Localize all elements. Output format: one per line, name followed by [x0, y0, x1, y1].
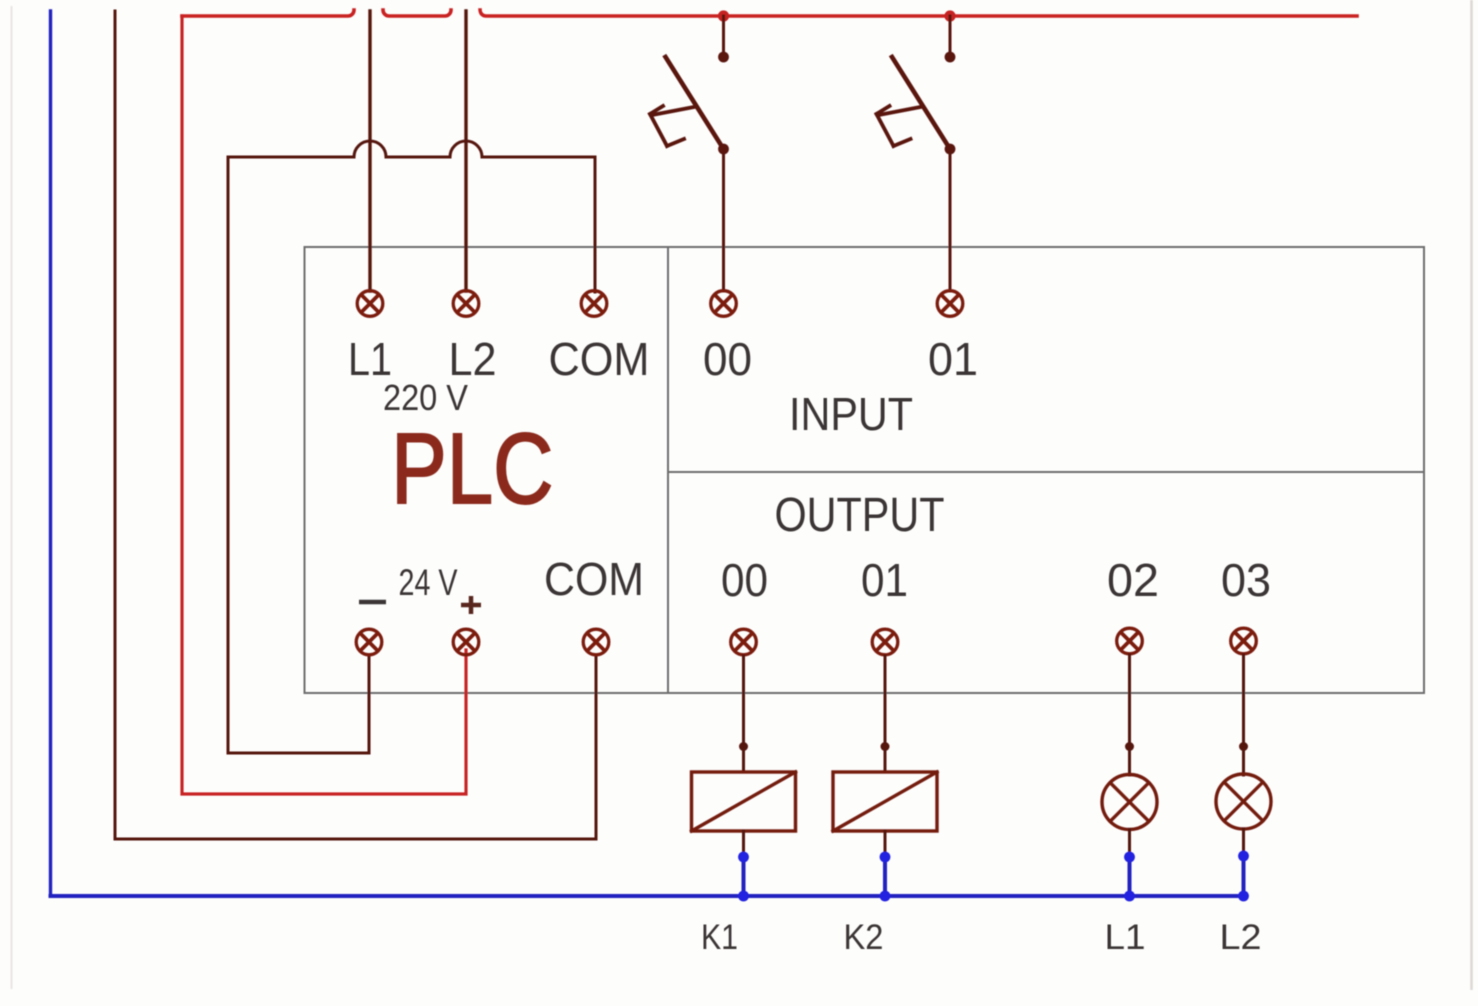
wire: red 24V+ from top bus corner down and to + terminal: [182, 16, 466, 794]
terminal COM top: [581, 291, 607, 317]
wire: output 03 to lamp L2: [1242, 655, 1245, 775]
svg-text:COM: COM: [544, 553, 644, 605]
node: red bus junction dot switch 1: [718, 10, 729, 21]
svg-text:PLC: PLC: [391, 413, 553, 525]
wire: L1 supply vertical: [368, 11, 371, 291]
relay coil K1: [692, 772, 796, 831]
node: junction above lamp L2: [1239, 742, 1248, 751]
svg-text:00: 00: [721, 554, 768, 606]
wire: output 01 to relay K2: [884, 656, 887, 772]
wire: dark COM-top to minus terminal with arc hops: [228, 141, 595, 753]
lamp L2: [1216, 774, 1271, 829]
relay coil K2: [833, 772, 937, 831]
svg-text:OUTPUT: OUTPUT: [775, 489, 945, 542]
terminal output 00: [731, 629, 757, 655]
label minus sign: [359, 600, 386, 605]
photo edge left: [11, 6, 13, 989]
terminal COM bottom: [583, 629, 609, 655]
PLC box divider horizontal INPUT/OUTPUT: [668, 471, 1424, 473]
terminal input 01: [937, 291, 963, 317]
svg-text:02: 02: [1107, 554, 1159, 606]
switch S2 (limit switch, NO): [877, 16, 956, 291]
node: red bus junction dot switch 2: [944, 10, 955, 21]
PLC box divider vertical: [667, 247, 669, 693]
wire: blue neutral bus, left vertical + bottom bus: [51, 11, 1244, 896]
terminal output 02: [1117, 628, 1143, 654]
label plus sign: [461, 596, 481, 614]
terminal output 01: [872, 629, 898, 655]
node: junction above K2: [881, 742, 890, 751]
wire: output 02 to lamp L1: [1128, 655, 1131, 775]
svg-text:L2: L2: [1220, 918, 1262, 957]
wire: dark left vertical to bottom COM: [115, 11, 596, 839]
photo edge right: [1470, 0, 1473, 990]
svg-text:K1: K1: [701, 918, 738, 957]
svg-text:01: 01: [861, 554, 908, 606]
svg-text:COM: COM: [549, 333, 650, 385]
svg-text:L1: L1: [1105, 918, 1146, 957]
PLC box outline: [305, 247, 1425, 693]
node: blue bus junction dots: [738, 851, 1249, 902]
svg-text:220 V: 220 V: [383, 377, 468, 418]
terminal minus: [356, 629, 382, 655]
svg-text:00: 00: [703, 333, 752, 385]
terminal L2: [453, 291, 479, 317]
wire: red top bus with hops over L1 L2 wires: [182, 10, 1357, 16]
terminal output 03: [1231, 628, 1257, 654]
svg-text:03: 03: [1221, 554, 1271, 606]
wire: blue drops from loads to bus: [744, 856, 1244, 896]
svg-text:24 V: 24 V: [399, 562, 458, 603]
terminals top row: [356, 291, 1256, 655]
wire: L2 supply vertical: [464, 11, 467, 291]
terminal plus: [453, 629, 479, 655]
lamp L1: [1102, 775, 1157, 830]
svg-text:K2: K2: [844, 918, 884, 957]
wire: output 00 to relay K1: [742, 656, 745, 772]
switch S1 (limit switch, NO): [650, 16, 729, 291]
svg-text:INPUT: INPUT: [789, 388, 913, 440]
terminal L1: [357, 291, 383, 317]
svg-text:01: 01: [928, 333, 978, 385]
terminal input 00: [711, 291, 737, 317]
node: junction above K1: [739, 742, 748, 751]
node: junction above lamp L1: [1125, 742, 1134, 751]
